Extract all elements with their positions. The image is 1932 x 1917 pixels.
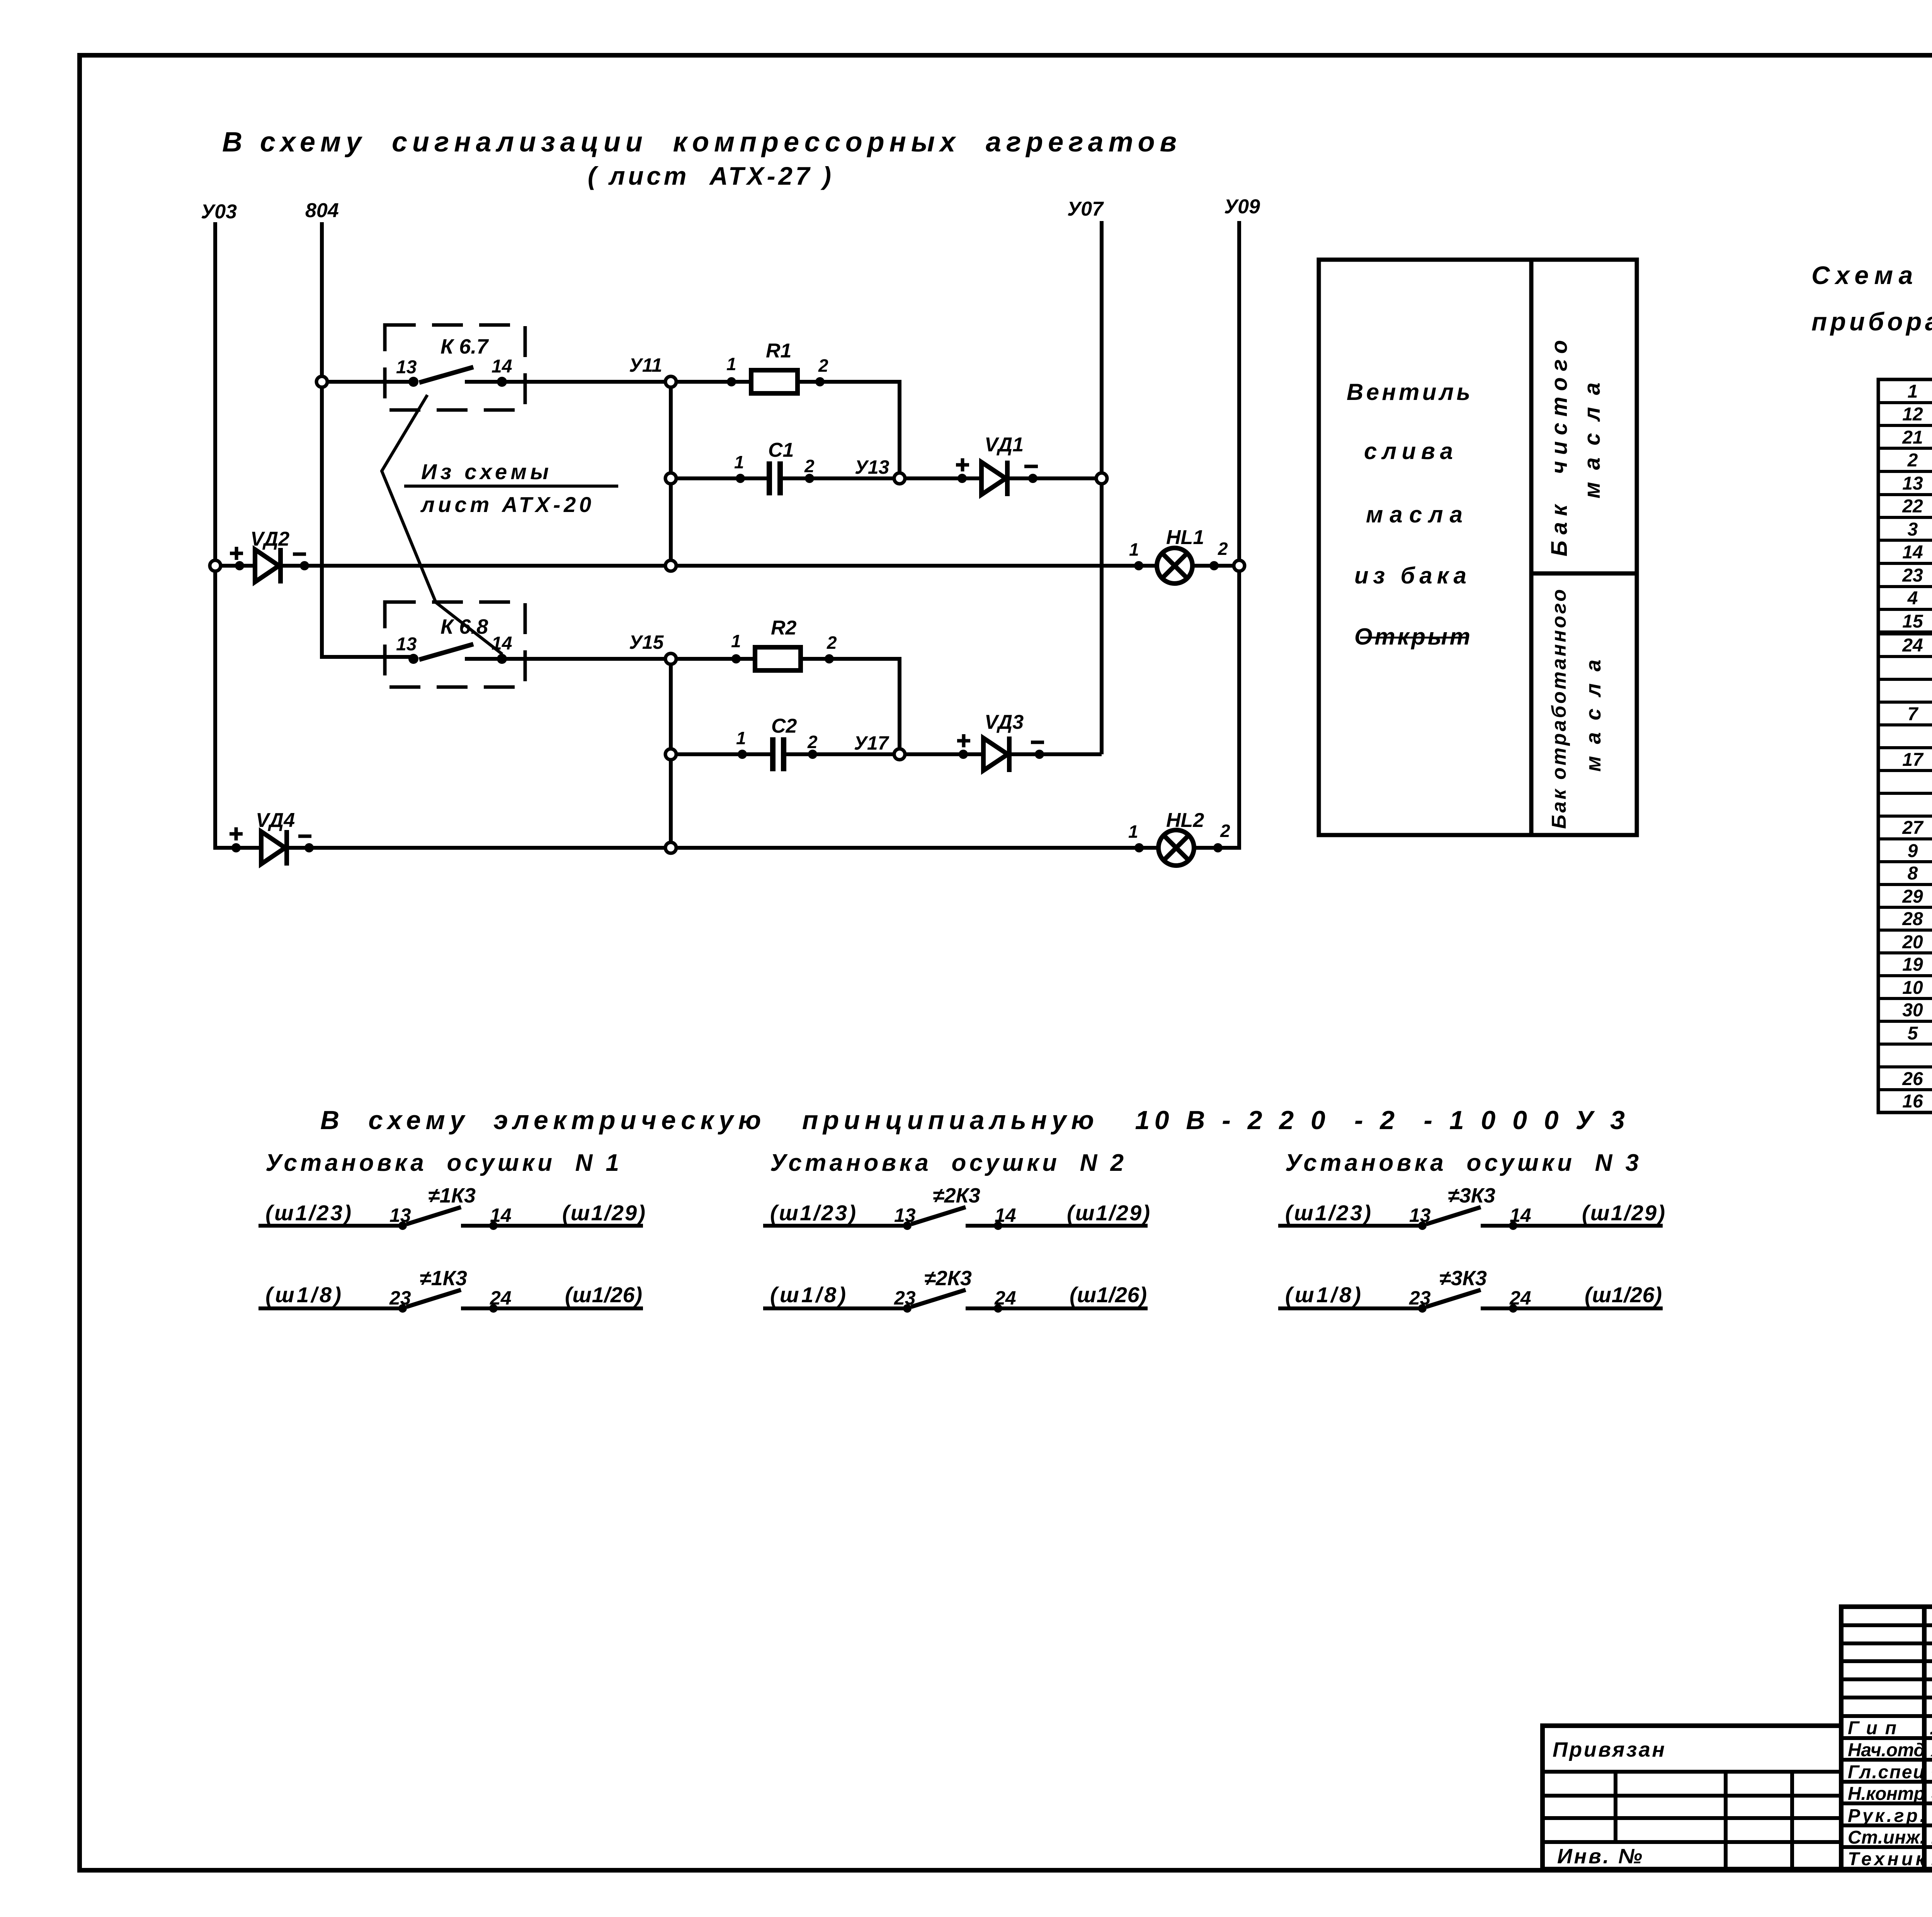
svg-text:22: 22 <box>1902 496 1923 517</box>
wire U03 to VD2 <box>221 564 255 568</box>
wire U17 to VD3 <box>905 752 983 756</box>
svg-text:≠1К3: ≠1К3 <box>420 1267 467 1290</box>
svg-text:Рук.гр.: Рук.гр. <box>1848 1806 1925 1826</box>
diode VD2 <box>255 549 279 582</box>
VD1 plus sign <box>956 458 969 471</box>
svg-text:Н.контр: Н.контр <box>1848 1784 1925 1804</box>
VD1 anode dot <box>957 474 967 483</box>
VD4 cathode dot <box>304 843 314 852</box>
VD3 cathode dot <box>1035 750 1044 759</box>
node on U03 at mid wire <box>210 560 221 571</box>
svg-text:2: 2 <box>818 356 828 376</box>
svg-text:VД3: VД3 <box>985 711 1024 733</box>
svg-text:23: 23 <box>1902 565 1923 586</box>
svg-text:≠2К3: ≠2К3 <box>933 1184 980 1207</box>
capacitor C1 <box>767 461 772 495</box>
wire bottom row VD4 to HL2 <box>287 846 1158 850</box>
svg-text:30: 30 <box>1902 1000 1923 1021</box>
svg-text:1: 1 <box>736 728 746 748</box>
terminal strip box 1 <box>1878 379 1932 632</box>
valve/tank info box <box>1319 260 1531 835</box>
wire mid row VD2 to HL1 <box>281 564 1157 568</box>
svg-text:Гл.спец: Гл.спец <box>1848 1762 1925 1783</box>
svg-text:VД4: VД4 <box>256 809 295 832</box>
node on U07 at VD1 row <box>1096 473 1107 484</box>
wire VD3 to U07 corner <box>1009 752 1102 756</box>
svg-text:С2: С2 <box>771 715 797 737</box>
svg-text:1: 1 <box>1128 822 1138 842</box>
lamp HL1 <box>1157 548 1192 583</box>
svg-text:≠3К3: ≠3К3 <box>1439 1267 1487 1290</box>
svg-text:(ш1/8): (ш1/8) <box>1285 1283 1361 1307</box>
svg-text:Установка осушки N 2: Установка осушки N 2 <box>770 1150 1124 1176</box>
relay contact K6.8 dashed box <box>385 602 525 687</box>
wire K6.8 pin14 to node U15 <box>465 657 671 661</box>
svg-text:(ш1/8): (ш1/8) <box>265 1283 341 1307</box>
VD3 anode dot <box>959 750 968 759</box>
svg-text:У03: У03 <box>201 201 237 223</box>
wire HL1 to U09 <box>1192 564 1239 568</box>
svg-text:(ш1/8): (ш1/8) <box>770 1283 846 1307</box>
svg-text:7: 7 <box>1908 704 1919 725</box>
wire C1 to node U13 <box>783 476 900 480</box>
svg-text:20: 20 <box>1902 932 1923 953</box>
signature table columns <box>1924 1607 1932 1869</box>
svg-text:R2: R2 <box>771 617 797 639</box>
node on U11 at C1 row <box>665 473 676 484</box>
VD2 plus sign <box>230 547 243 560</box>
wire U11 vertical <box>669 387 673 560</box>
svg-text:2: 2 <box>1220 821 1230 841</box>
svg-text:24: 24 <box>1902 635 1923 656</box>
signature table rows <box>1841 1623 1932 1627</box>
svg-text:R1: R1 <box>766 340 791 362</box>
capacitor C2 <box>770 737 776 771</box>
svg-text:Нач.отд: Нач.отд <box>1848 1740 1925 1761</box>
svg-text:≠3К3: ≠3К3 <box>1448 1184 1495 1207</box>
svg-text:1: 1 <box>731 631 741 651</box>
C1 pin 2 <box>805 474 814 483</box>
svg-text:2: 2 <box>1218 539 1228 559</box>
svg-text:804: 804 <box>305 199 339 222</box>
svg-text:21: 21 <box>1902 427 1923 448</box>
wire U13 to VD1 <box>905 476 981 480</box>
svg-text:16: 16 <box>1902 1091 1923 1112</box>
terminal strip box 2 <box>1878 634 1932 1112</box>
wire 804 corner to K6.8 pin 13 <box>322 655 413 659</box>
wire U11 to C1 <box>676 476 767 480</box>
VD3 minus sign <box>1031 741 1044 744</box>
svg-text:28: 28 <box>1902 909 1923 929</box>
svg-text:2: 2 <box>804 456 815 476</box>
svg-text:Гип: Гип <box>1848 1718 1896 1738</box>
svg-text:13: 13 <box>1902 473 1923 494</box>
svg-text:≠1К3: ≠1К3 <box>428 1184 476 1207</box>
svg-text:С1: С1 <box>768 439 794 461</box>
VD4 minus sign <box>298 835 311 838</box>
svg-text:9: 9 <box>1908 841 1918 861</box>
privyazan box <box>1543 1726 1841 1869</box>
svg-text:У11: У11 <box>629 354 662 376</box>
VD2 cathode dot <box>300 561 309 570</box>
K6.8 blade <box>419 644 473 660</box>
svg-text:13: 13 <box>396 357 417 378</box>
VD2 anode dot <box>235 561 244 570</box>
diode VD1 <box>981 462 1006 495</box>
node on U09 at HL1 row <box>1234 560 1245 571</box>
HL1 pin 1 <box>1134 561 1143 570</box>
svg-text:Установка осушки N 1: Установка осушки N 1 <box>265 1150 619 1176</box>
svg-text:(ш1/26): (ш1/26) <box>565 1283 642 1307</box>
diode VD4 <box>261 832 285 864</box>
svg-text:Бак отработанного: Бак отработанного <box>1548 589 1570 829</box>
node U13 <box>894 473 905 484</box>
svg-text:≠2К3: ≠2К3 <box>924 1267 972 1290</box>
wire U03 corner to VD4 <box>215 842 261 848</box>
R1 pin 2 <box>815 377 825 386</box>
wire K6.7 pin14 to node U11 <box>465 380 671 384</box>
VD4 plus sign <box>230 827 243 840</box>
svg-text:17: 17 <box>1902 750 1924 770</box>
VD2 minus sign <box>293 553 306 556</box>
svg-text:26: 26 <box>1902 1069 1923 1089</box>
svg-text:Инв. №: Инв. № <box>1557 1845 1642 1868</box>
svg-text:1: 1 <box>1908 381 1918 402</box>
K6.8 pin 13 <box>408 654 418 664</box>
svg-text:(ш1/26): (ш1/26) <box>1585 1283 1662 1307</box>
svg-text:1: 1 <box>734 452 744 472</box>
resistor R1 <box>751 370 798 393</box>
wire bus U03 <box>213 222 217 848</box>
svg-text:К 6.7: К 6.7 <box>440 335 489 358</box>
svg-text:19: 19 <box>1902 954 1923 975</box>
wire bus 804 <box>320 222 324 659</box>
svg-text:14: 14 <box>492 633 512 654</box>
svg-text:VД2: VД2 <box>250 528 289 550</box>
svg-text:У13: У13 <box>855 456 889 478</box>
VD4 anode dot <box>231 843 241 852</box>
svg-text:лист АТХ-20: лист АТХ-20 <box>420 492 591 517</box>
node on U15 at bottom wire <box>665 842 676 853</box>
svg-text:2: 2 <box>1907 450 1918 471</box>
svg-text:Ст.инж.: Ст.инж. <box>1848 1827 1925 1848</box>
wire bus U07 <box>1100 221 1104 754</box>
svg-text:29: 29 <box>1902 886 1923 907</box>
svg-text:В схему электрическую прин: В схему электрическую принципиальную 10 … <box>320 1106 1625 1135</box>
svg-text:27: 27 <box>1902 818 1924 838</box>
VD1 minus sign <box>1024 465 1038 468</box>
wire R1 to corner, down to node U13 <box>798 382 900 478</box>
svg-text:14: 14 <box>1902 542 1923 563</box>
node on U11 at mid wire <box>665 560 676 571</box>
K6.7 pin 13 <box>408 377 418 387</box>
svg-text:5: 5 <box>1908 1023 1918 1044</box>
diode VD3 <box>983 738 1008 771</box>
svg-text:1: 1 <box>726 354 736 374</box>
svg-text:2: 2 <box>807 732 818 752</box>
node U17 <box>894 749 905 760</box>
wire U15 to C2 <box>676 752 771 756</box>
K6.8 pin 14 <box>497 654 507 664</box>
VD3 plus sign <box>957 734 970 747</box>
svg-text:1: 1 <box>1129 539 1139 560</box>
wire bus U09 <box>1237 221 1241 848</box>
wire U15 vertical <box>669 664 673 842</box>
svg-text:13: 13 <box>396 634 417 655</box>
C2 pin 1 <box>738 750 747 759</box>
svg-text:3: 3 <box>1908 519 1918 540</box>
svg-text:К 6.8: К 6.8 <box>440 615 488 638</box>
svg-text:У15: У15 <box>629 631 664 653</box>
svg-text:Установка осушки N 3: Установка осушки N 3 <box>1285 1150 1639 1176</box>
C1 pin 1 <box>736 474 745 483</box>
svg-text:8: 8 <box>1908 863 1918 884</box>
node U15 <box>665 653 676 664</box>
wire VD1 to U07 <box>1007 476 1102 480</box>
K6.7 pin 14 <box>497 377 507 387</box>
svg-text:10: 10 <box>1902 978 1923 998</box>
resistor R2 <box>755 647 801 670</box>
wire HL2 to U09 corner <box>1194 842 1239 848</box>
R2 pin 2 <box>825 654 834 663</box>
node U11 <box>665 376 676 387</box>
svg-text:14: 14 <box>492 356 512 377</box>
lamp HL2 <box>1158 830 1194 866</box>
R1 pin 1 <box>727 377 736 386</box>
leader lines to note <box>382 395 502 654</box>
svg-text:У09: У09 <box>1224 196 1260 218</box>
C2 pin 2 <box>808 750 817 759</box>
svg-text:(ш1/26): (ш1/26) <box>1070 1283 1147 1307</box>
svg-text:HL2: HL2 <box>1166 809 1204 832</box>
relay contact K6.7 dashed box <box>385 325 525 410</box>
wire U11 to R1 <box>676 380 751 384</box>
title block outer <box>1841 1607 1932 1869</box>
svg-text:У17: У17 <box>854 732 889 754</box>
HL2 pin 1 <box>1134 843 1144 852</box>
wire U15 to R2 <box>676 657 755 661</box>
wire 804 to K6.7 pin 13 <box>322 380 413 384</box>
svg-text:HL1: HL1 <box>1166 526 1204 549</box>
node on 804 at K6.7 row <box>316 376 327 387</box>
HL1 pin 2 <box>1209 561 1219 570</box>
svg-text:VД1: VД1 <box>985 434 1024 456</box>
VD1 cathode dot <box>1028 474 1037 483</box>
HL2 pin 2 <box>1213 843 1223 852</box>
wire C2 to node U17 <box>786 752 900 756</box>
svg-text:15: 15 <box>1902 611 1923 632</box>
svg-text:4: 4 <box>1907 588 1918 609</box>
wire R2 to corner, down to node U17 <box>801 659 900 754</box>
node on U15 at C2 row <box>665 749 676 760</box>
svg-text:У07: У07 <box>1067 198 1104 220</box>
R2 pin 1 <box>731 654 741 663</box>
svg-text:12: 12 <box>1902 404 1923 425</box>
divider between tank cells <box>1531 572 1637 576</box>
svg-text:2: 2 <box>827 633 837 653</box>
svg-text:Привязан: Привязан <box>1553 1738 1665 1761</box>
K6.7 blade <box>419 367 473 383</box>
